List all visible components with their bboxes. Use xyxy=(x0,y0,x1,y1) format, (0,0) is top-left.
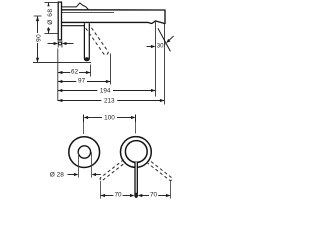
water stream diagonal (30 deg) xyxy=(158,28,171,51)
spout escutcheon (left circle) xyxy=(69,137,100,168)
extension lines at swung lever tips xyxy=(100,181,102,199)
arrow on stream line xyxy=(167,36,174,42)
spout nose (inner circle) xyxy=(78,146,90,158)
svg-text:Ø 28: Ø 28 xyxy=(50,171,64,178)
lever swung left (dashed) xyxy=(100,160,126,182)
lever handle (side view, at rest) xyxy=(84,23,89,60)
lever dark tip (front view) xyxy=(135,193,138,198)
svg-text:70: 70 xyxy=(114,192,122,199)
194 dimension xyxy=(58,90,98,92)
svg-text:30°: 30° xyxy=(157,43,167,50)
svg-text:194: 194 xyxy=(100,87,111,94)
svg-text:100: 100 xyxy=(104,114,115,121)
spout inner top contour line xyxy=(62,11,114,13)
wall plate (escutcheon side view) xyxy=(58,2,61,40)
extension line at lever bottom (90 dim ref) xyxy=(33,62,91,64)
lever (front view, pointing down) xyxy=(135,162,137,197)
dia 28 extension lines xyxy=(78,152,80,177)
nozzle extension line (30 deg / 194 ref) xyxy=(155,22,157,97)
90 dimension xyxy=(34,15,42,17)
dia 28 dimension arrows xyxy=(68,174,75,176)
svg-text:97: 97 xyxy=(78,78,86,85)
handle sleeve line under spout xyxy=(62,25,84,27)
svg-text:62: 62 xyxy=(71,69,79,76)
30 deg arrow at vertical reference xyxy=(147,46,152,48)
collar line and bump detail on spout top xyxy=(62,3,88,10)
plate thickness dimension with circle mark xyxy=(57,41,59,48)
62 dimension xyxy=(90,65,92,77)
svg-text:Ø 68: Ø 68 xyxy=(47,8,54,24)
extension lines from dim 100 down to circles xyxy=(83,122,85,134)
svg-text:90: 90 xyxy=(35,34,42,42)
svg-text:213: 213 xyxy=(104,98,115,105)
left extension line for horizontal dims (wall face) xyxy=(57,49,59,102)
dia 68 dimension line xyxy=(48,3,50,34)
70 / 70 dimension xyxy=(101,195,114,197)
100 dimension xyxy=(83,115,85,123)
lever swung position (dashed) xyxy=(86,25,109,55)
97 dimension xyxy=(110,54,112,85)
213 dimension xyxy=(58,100,102,102)
lever swung right (dashed) xyxy=(147,160,173,182)
lever dark tip (side view) xyxy=(85,57,89,61)
spout tip extension line (213 ref) xyxy=(164,24,166,105)
dia 68 extension lines xyxy=(45,2,59,4)
spout body outline xyxy=(62,10,165,24)
handle boss (inner circle) xyxy=(125,141,147,163)
svg-text:70: 70 xyxy=(150,192,158,199)
handle escutcheon (right circle) xyxy=(120,137,151,168)
